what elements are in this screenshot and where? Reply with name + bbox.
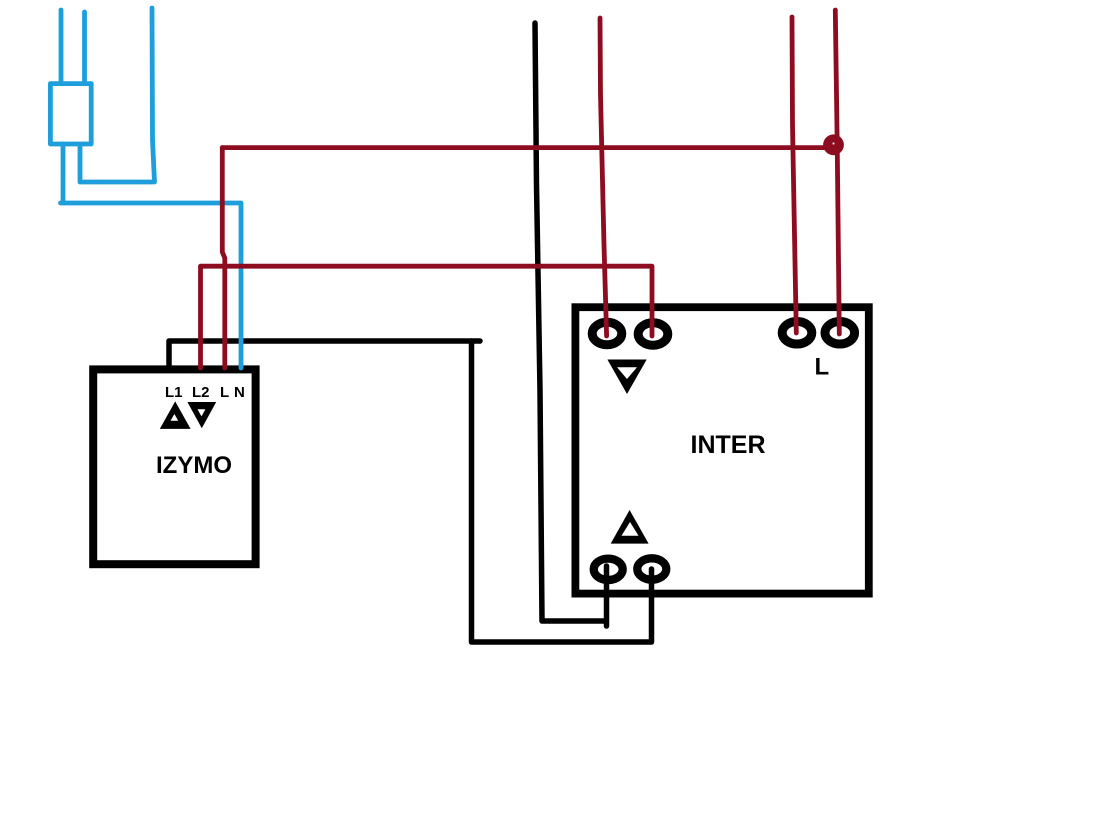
svg-text:L: L <box>220 384 229 401</box>
svg-text:L2: L2 <box>192 384 210 401</box>
svg-text:N: N <box>234 384 245 401</box>
svg-text:IZYMO: IZYMO <box>156 452 232 479</box>
svg-text:L1: L1 <box>165 384 183 401</box>
svg-text:L: L <box>815 353 830 380</box>
svg-text:INTER: INTER <box>691 431 766 459</box>
